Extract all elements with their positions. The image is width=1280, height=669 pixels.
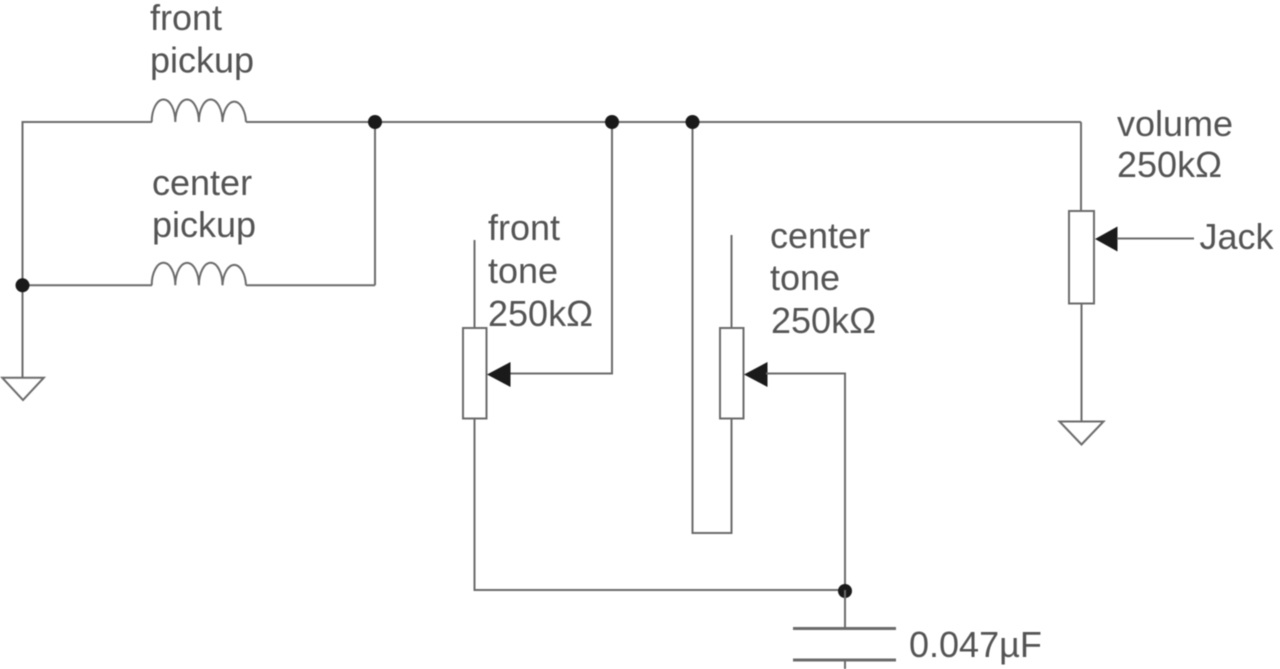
svg-text:250kΩ: 250kΩ	[771, 300, 876, 341]
potentiometer center tone: top stub	[731, 235, 733, 329]
wire: top bus right segment	[246, 121, 1081, 123]
wire: bottom pickup wire right segment	[246, 284, 375, 286]
svg-text:pickup: pickup	[150, 40, 254, 81]
capacitor C1 top plate	[793, 627, 896, 630]
wire: left ground stem	[22, 285, 24, 378]
node: junction dot top bus 3	[686, 115, 700, 129]
node: junction dot top bus 2	[605, 115, 619, 129]
inductor L1 front pickup	[152, 100, 246, 123]
label: center tone 250k	[770, 215, 876, 341]
inductor L2 center pickup	[152, 263, 246, 286]
ground symbol right	[1060, 422, 1104, 445]
label: front pickup	[150, 0, 254, 81]
potentiometer volume: body	[1069, 211, 1094, 304]
svg-text:front: front	[150, 0, 222, 38]
ground symbol left	[2, 378, 44, 400]
label: volume 250k	[1117, 103, 1233, 185]
svg-text:250kΩ: 250kΩ	[1117, 144, 1222, 185]
wire: volume riser	[1080, 122, 1082, 211]
wire: bottom horizontal to capacitor junction	[474, 589, 846, 591]
svg-text:Jack: Jack	[1200, 216, 1275, 257]
node: junction dot top bus 1	[368, 115, 382, 129]
wire: front tone wiper horizontal	[509, 373, 613, 375]
wiper arrow center tone	[744, 362, 768, 387]
wire: pickup right rail	[374, 122, 376, 285]
svg-text:0.047µF: 0.047µF	[909, 624, 1042, 665]
svg-text:center: center	[770, 215, 870, 256]
wiper arrow volume	[1095, 227, 1118, 252]
node: junction dot left rail	[16, 278, 30, 292]
wire: left rail	[22, 121, 24, 286]
svg-text:center: center	[152, 162, 252, 203]
wire: center tone bypass riser	[692, 122, 694, 534]
node: junction dot capacitor	[838, 584, 852, 598]
label: front tone 250k	[488, 207, 593, 334]
wire: volume bottom terminal	[1081, 304, 1083, 423]
wire: bypass foot	[693, 532, 732, 534]
wire: bottom pickup wire left segment	[23, 284, 153, 286]
svg-text:volume: volume	[1117, 103, 1233, 144]
wire: capacitor top lead	[844, 590, 846, 629]
potentiometer center tone: body	[720, 328, 744, 419]
label: center pickup	[152, 162, 256, 245]
wiper arrow front tone	[487, 362, 511, 387]
wire: capacitor bottom lead	[844, 660, 846, 669]
wire: center tone wiper horizontal	[766, 373, 846, 375]
wire: center tone bottom terminal	[731, 419, 733, 535]
capacitor C1 bottom plate	[793, 659, 896, 662]
wire: center tone wiper drop	[844, 374, 846, 592]
wire: jack lead	[1117, 238, 1194, 240]
wire: front tone bottom terminal	[474, 419, 476, 592]
svg-text:250kΩ: 250kΩ	[488, 293, 593, 334]
svg-text:tone: tone	[770, 257, 840, 298]
svg-text:pickup: pickup	[152, 204, 256, 245]
svg-text:front: front	[488, 207, 560, 248]
wire: top bus left segment	[23, 121, 153, 123]
potentiometer front tone: top stub	[474, 240, 476, 329]
wire: front tone wiper riser	[611, 122, 613, 374]
potentiometer front tone: body	[463, 328, 487, 419]
svg-text:tone: tone	[488, 250, 558, 291]
